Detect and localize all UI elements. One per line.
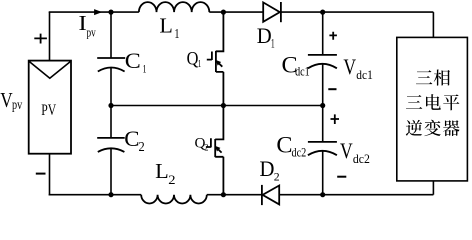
PV source box xyxy=(29,61,71,154)
diode D1 xyxy=(263,2,280,21)
svg-text:V: V xyxy=(0,89,13,112)
wire middle rail xyxy=(111,105,323,107)
svg-text:L: L xyxy=(155,160,169,183)
plus sign Cdc2 xyxy=(331,114,340,124)
wire top-left vertical from PV plus terminal xyxy=(49,12,51,61)
capacitor C2 xyxy=(110,106,112,138)
node C2 bottom / negative rail xyxy=(108,192,113,197)
svg-text:L: L xyxy=(159,14,172,37)
svg-text:C: C xyxy=(124,126,139,151)
node D1 cathode / Vdc1 plus rail xyxy=(320,10,325,15)
svg-text:D: D xyxy=(257,23,272,48)
node Q1 source - Q2 drain junction xyxy=(221,103,226,108)
plus sign Cdc1 xyxy=(329,32,337,40)
inductor L2 xyxy=(141,195,207,204)
wire bottom rail left segment xyxy=(49,194,142,196)
svg-text:dc2: dc2 xyxy=(353,151,370,166)
inverter label line1 三相 xyxy=(416,70,450,86)
capacitor C1 xyxy=(110,12,112,58)
svg-text:dc1: dc1 xyxy=(356,67,373,82)
svg-text:PV: PV xyxy=(41,102,56,119)
wire top rail left segment xyxy=(49,11,139,13)
inverter label line3 逆变器 xyxy=(406,120,460,136)
inductor L1 xyxy=(139,2,209,12)
svg-text:V: V xyxy=(343,55,356,79)
minus sign Cdc2 xyxy=(337,176,346,178)
svg-text:V: V xyxy=(340,139,353,163)
node C1-C2 midpoint xyxy=(108,103,113,108)
plus sign PV xyxy=(34,34,47,44)
wire bottom rail right segment xyxy=(279,194,433,196)
wire riser to inverter bottom xyxy=(432,181,434,195)
svg-text:C: C xyxy=(125,48,141,73)
svg-text:1: 1 xyxy=(198,58,202,70)
capacitor Cdc1 xyxy=(322,12,324,55)
wire PV bottom lead xyxy=(49,154,51,196)
svg-text:pv: pv xyxy=(87,26,97,40)
svg-text:D: D xyxy=(260,157,275,182)
node Q2 source / L2 junction xyxy=(221,192,226,197)
node Q1 drain / D1 anode xyxy=(221,10,226,15)
svg-text:1: 1 xyxy=(271,37,275,52)
svg-text:2: 2 xyxy=(204,142,208,152)
diode D2 xyxy=(263,186,280,205)
node Cdc2 bottom / D2 anode xyxy=(320,192,325,197)
PV chevron xyxy=(29,61,71,78)
svg-text:2: 2 xyxy=(274,169,280,183)
current arrow Ipv xyxy=(94,9,102,15)
node C1 top / positive rail xyxy=(108,10,113,15)
svg-text:pv: pv xyxy=(12,97,23,113)
svg-text:2: 2 xyxy=(168,173,175,187)
wire bottom rail middle segment xyxy=(207,194,262,196)
transistor Q2 xyxy=(215,106,223,195)
wire top rail middle segment xyxy=(209,11,263,13)
svg-text:I: I xyxy=(78,12,86,36)
svg-text:Q: Q xyxy=(187,47,199,68)
svg-text:1: 1 xyxy=(174,26,179,42)
inverter box xyxy=(397,37,468,181)
wire top rail right segment xyxy=(280,11,433,13)
transistor Q1 xyxy=(216,12,224,105)
minus sign PV xyxy=(36,173,46,175)
svg-text:dc2: dc2 xyxy=(292,145,307,159)
node Cdc1-Cdc2 midpoint xyxy=(320,103,325,108)
inverter label line2 三电平 xyxy=(406,94,459,110)
svg-text:C: C xyxy=(276,133,292,158)
wire riser to inverter top xyxy=(432,12,434,37)
svg-text:1: 1 xyxy=(143,63,147,76)
svg-text:2: 2 xyxy=(139,139,145,155)
capacitor Cdc2 xyxy=(322,106,324,142)
minus sign Cdc1 xyxy=(328,88,336,90)
svg-text:dc1: dc1 xyxy=(295,64,310,78)
